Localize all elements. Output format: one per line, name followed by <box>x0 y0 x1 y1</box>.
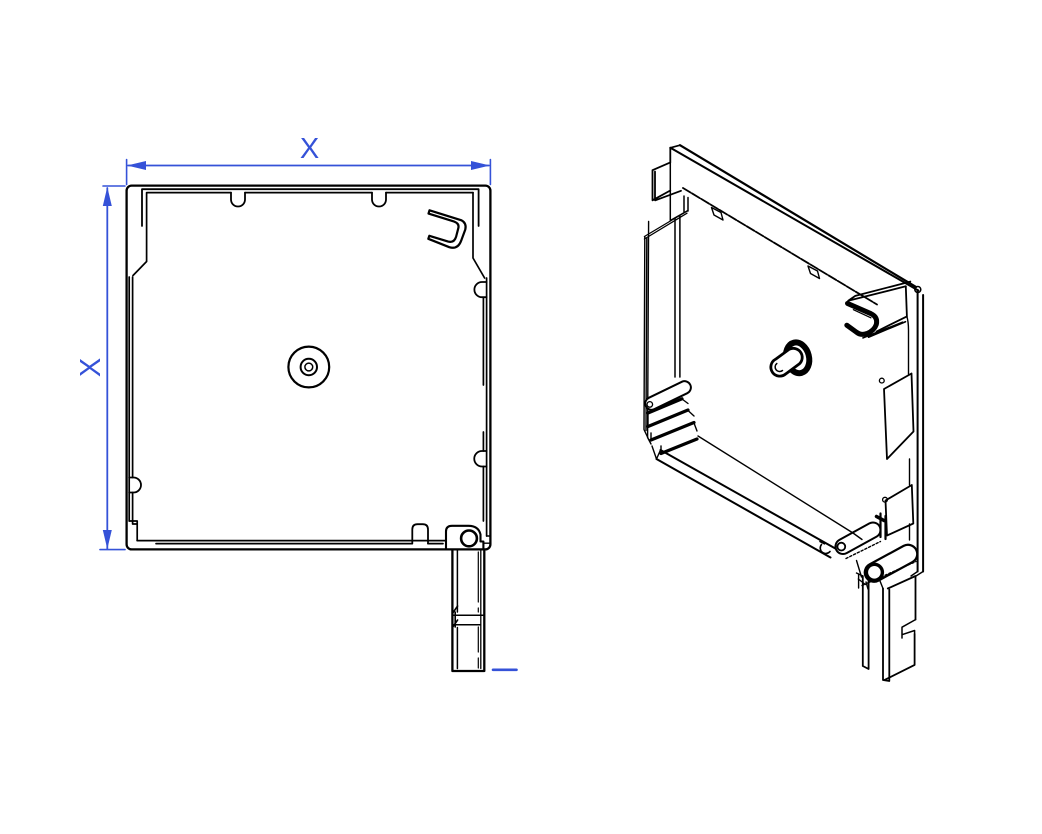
right panel lower <box>886 485 914 536</box>
bracket bottom-right <box>446 526 483 550</box>
left bump tab <box>129 478 141 493</box>
rail left hanging tab <box>670 162 688 220</box>
leg strip 1 <box>863 576 869 669</box>
plate right edge second <box>922 295 924 572</box>
inner bottom line A <box>137 540 446 542</box>
svg-text:X: X <box>75 358 107 377</box>
leg left break marks <box>452 606 457 628</box>
rail top pair L2 <box>670 148 918 291</box>
plate right top corner <box>915 287 921 293</box>
cluster saddle line upper <box>846 542 881 559</box>
plate left edge <box>644 222 649 438</box>
right bump tab upper <box>474 282 486 297</box>
hook clip top-right <box>428 210 465 247</box>
arrowhead top-left <box>127 161 146 170</box>
bracket step to edge <box>483 536 490 543</box>
left edge to stair links <box>644 430 656 459</box>
plate right edge outer <box>917 290 919 572</box>
clip top strip <box>848 282 910 301</box>
leg cluster top links <box>857 572 924 589</box>
cluster strut verticals <box>881 514 886 540</box>
center boss middle circle <box>301 359 317 375</box>
leg outline <box>452 550 484 671</box>
clip right wall face <box>877 286 907 331</box>
cluster bump arc <box>820 542 830 554</box>
stair tread C <box>651 423 694 441</box>
inner left vertical upper <box>133 193 147 276</box>
arrowhead left-bottom <box>103 530 112 549</box>
inner top notch tab 2 <box>808 266 820 279</box>
left pin end hole <box>647 402 653 408</box>
left dim extension line bottom <box>100 549 125 551</box>
inner top edge L5 <box>683 188 877 305</box>
inner right double vertical <box>483 278 486 536</box>
left channel double vertical <box>675 216 680 377</box>
left pin body <box>645 381 691 410</box>
arrowhead top-right <box>471 161 490 170</box>
bottom band inner edge <box>698 436 853 533</box>
left dim extension line top <box>103 185 125 187</box>
panel upper corner circle <box>879 378 884 383</box>
right panel upper <box>884 374 914 460</box>
top notch 2 <box>372 193 386 207</box>
leg inner vertical line <box>477 552 479 668</box>
inner top line B with notches <box>147 192 473 194</box>
inner right vertical upper <box>473 193 485 278</box>
inner top line A <box>142 189 479 226</box>
boss end chamfer <box>775 364 782 372</box>
center boss inner circle <box>305 363 313 371</box>
bracket circle <box>461 531 477 547</box>
outer outline front view <box>127 186 491 550</box>
bottom band top line <box>661 450 839 550</box>
right bump tab lower <box>474 451 486 467</box>
inner bottom line B <box>156 543 443 545</box>
stair tread A <box>648 399 682 413</box>
boss flange ring <box>783 340 813 376</box>
clip bottom strip <box>863 322 906 338</box>
inner top notch tab 1 <box>712 208 724 221</box>
bottom band bottom line <box>657 459 831 558</box>
cluster saddle line lower <box>862 562 916 586</box>
panel lower corner circle <box>883 497 888 502</box>
plate front right edge <box>907 316 910 540</box>
top notch 1 <box>231 193 245 207</box>
arrowhead left-top <box>103 187 112 206</box>
stray dimension segment bottom right <box>493 668 517 671</box>
rail top face left edge <box>670 145 680 148</box>
svg-text:X: X <box>300 133 319 165</box>
center boss outer circle <box>288 347 329 388</box>
cluster connectors <box>853 533 868 589</box>
leg joint lines <box>452 615 484 625</box>
roller upper end circle <box>837 543 845 551</box>
leg strip 2 <box>883 589 889 682</box>
boss cylinder <box>771 348 802 376</box>
cluster small tab <box>877 517 885 521</box>
clip slot far edge <box>853 310 871 318</box>
bottom band left cap <box>657 450 661 459</box>
stair tread D <box>661 439 697 454</box>
top dimension line <box>128 165 489 167</box>
leg inner right line solid <box>480 551 482 669</box>
rail top back edge L1 <box>680 145 916 287</box>
bottom bump tab <box>412 524 428 543</box>
leg notch <box>902 620 916 638</box>
roller lower end circle <box>866 564 882 580</box>
stair tread B <box>648 410 688 427</box>
roller lower body <box>865 545 917 582</box>
left wall top double diagonal <box>644 211 688 240</box>
inner left double vertical <box>129 277 132 521</box>
stair risers <box>648 399 697 453</box>
bottom-left corner step <box>129 521 137 541</box>
roller upper body <box>835 522 880 554</box>
rail left end cap <box>653 148 682 201</box>
left dimension line <box>106 188 108 549</box>
top dim extension line left <box>126 160 128 185</box>
clip profile body <box>847 303 877 334</box>
leg inner left line <box>456 551 458 669</box>
top dim extension line right <box>489 160 491 185</box>
leg wide face <box>884 576 915 680</box>
